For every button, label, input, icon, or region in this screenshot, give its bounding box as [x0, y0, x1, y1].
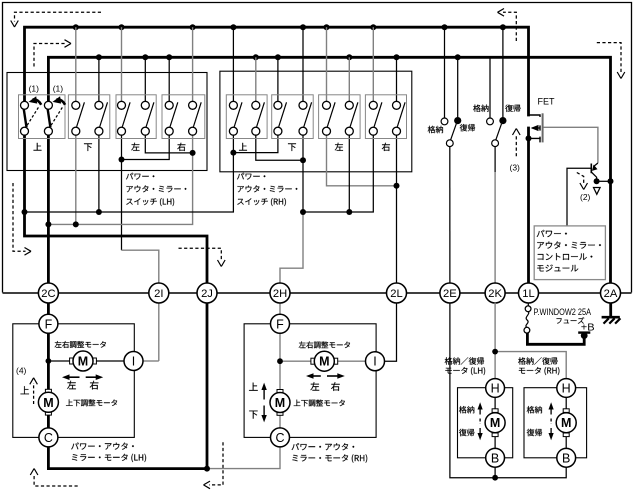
wire: below 2I gray to motor I	[158, 303, 160, 361]
dashed flow arrow bottom-left (up)	[34, 474, 78, 486]
lever motion curved arrow (1) left	[33, 99, 42, 104]
node F LH	[39, 314, 58, 333]
svg-text:M: M	[561, 416, 571, 430]
arrows and labels inside LH retract box	[459, 406, 474, 413]
wire: RH col7 lower corner to row212	[303, 135, 373, 212]
svg-text:1L: 1L	[522, 288, 534, 300]
up arrow solid	[263, 388, 265, 400]
caption: retract/return motor (LH)	[445, 357, 484, 365]
wire: RH col5 tie to col8 (gray)	[327, 135, 397, 186]
svg-text:C: C	[44, 431, 53, 445]
motor M left-right RH	[311, 358, 315, 364]
transistor	[591, 163, 598, 181]
switch cell boxes LH (up/down/left/right)	[19, 95, 205, 139]
wire: LH col5 lower to 2I jog	[121, 135, 123, 250]
cell labels LH	[34, 143, 42, 151]
svg-text:2I: 2I	[154, 288, 163, 300]
svg-text:I: I	[373, 355, 376, 369]
open switch levers RH	[234, 102, 405, 127]
node I RH	[366, 352, 385, 371]
svg-text:2K: 2K	[488, 288, 502, 300]
wire: feed to RH col6 (gray from bus2)	[348, 57, 350, 101]
node C RH	[271, 428, 290, 447]
wire: RH col3 tie to col1	[233, 135, 278, 152]
node H LH	[486, 379, 505, 398]
wire: retract switch A common to 2E	[449, 147, 451, 284]
left arrow	[310, 375, 321, 377]
wire: below 2K gray to retract motors	[494, 303, 496, 352]
closed switch levers LH up-cell (operated)	[24, 109, 27, 127]
dashed flow arrow bottom-mid (left)	[209, 442, 223, 485]
svg-text:2J: 2J	[201, 288, 213, 300]
svg-text:F: F	[276, 317, 284, 331]
retract switch A contacts	[441, 118, 448, 125]
dashed flow arrow top-left (enter, down)	[15, 12, 102, 21]
wire: LH col8 lower (gray) with tie to col2/col3	[48, 135, 192, 224]
svg-text:B: B	[562, 451, 570, 465]
svg-text:(1): (1)	[29, 83, 40, 93]
node F RH	[271, 314, 290, 333]
label: left-right adjust motor	[299, 341, 350, 348]
wire: feed to RH col5 (gray from bus1)	[326, 27, 328, 101]
junction dots on bus 1	[73, 24, 506, 30]
switch contact circles LH	[21, 101, 197, 135]
svg-text:M: M	[490, 416, 500, 430]
label: left-right adjust motor	[55, 341, 106, 348]
power outer mirror switch LH box	[7, 73, 207, 171]
svg-text:(1): (1)	[53, 83, 64, 93]
wire: RH col4 lower to row212	[302, 135, 304, 212]
junction dots on bus 2	[96, 54, 461, 60]
dashed flow arrow top (exit left)	[503, 12, 516, 41]
svg-text:F: F	[45, 317, 53, 331]
open triangle arrow below collector node	[594, 188, 601, 195]
wire: LH col6 lower tie to col8	[145, 135, 192, 153]
junction dot bottom bus	[204, 466, 210, 472]
svg-text:2H: 2H	[273, 288, 287, 300]
wire: feed to LH col5 (gray from bus1)	[121, 27, 123, 101]
fuse below 1L	[527, 303, 529, 306]
down arrow solid	[263, 406, 265, 418]
label: up-down adjust motor	[66, 399, 117, 406]
FET symbol	[529, 113, 543, 142]
right arrow	[86, 376, 100, 378]
wire: transistor base lead down to module	[567, 168, 592, 226]
motor M up-down LH	[45, 389, 51, 393]
wires H-M-B LH	[494, 397, 496, 410]
label: up-down adjust motor	[294, 400, 345, 407]
retract motor LH box	[458, 388, 513, 458]
svg-text:M: M	[319, 355, 329, 369]
node C LH	[39, 428, 58, 447]
ground below 2A	[609, 303, 612, 317]
wire: feed to RH col2 (gray from bus2)	[255, 57, 257, 101]
wire: bottom bus thick (C LH to 2J riser)	[48, 447, 207, 468]
labels switch B	[473, 105, 488, 112]
svg-text:2C: 2C	[41, 288, 55, 300]
node B LH	[486, 448, 505, 467]
retract switch B contacts	[487, 118, 494, 125]
node B RH	[557, 448, 576, 467]
motor M retract LH	[492, 409, 498, 413]
caption: power outer mirror switch (LH)	[126, 173, 154, 180]
motor M retract RH	[563, 409, 569, 413]
svg-text:H: H	[491, 382, 500, 396]
wire: F to updown motor to C (gray)	[279, 333, 281, 391]
wire: RH col1 lower with tie corner to row212	[25, 135, 234, 212]
wire: LH col4 lower	[98, 135, 100, 212]
wire: LH col3 lower (gray)	[75, 135, 77, 224]
dashed flow arrow near 2J (down)	[179, 248, 222, 261]
mirror motor LH box	[13, 324, 135, 438]
svg-text:C: C	[275, 431, 284, 445]
svg-text:I: I	[132, 355, 135, 369]
connector nodes row	[38, 283, 620, 303]
dashed flow arrow upper-left (right)	[34, 44, 66, 67]
svg-text:+B: +B	[581, 322, 595, 333]
wire: feed retract-sw B fixed contact (kakunou)	[489, 57, 491, 118]
caption: power outer mirror switch (RH)	[237, 173, 265, 180]
dashed flow arrow (3) up	[515, 134, 517, 156]
labels switch A	[428, 126, 443, 133]
wire: feed retract-sw B fixed contact (fukki)	[502, 27, 504, 117]
wire: feed to RH col7 (gray from bus1)	[372, 27, 374, 101]
wire: feed to LH col7 (from bus2)	[168, 57, 170, 101]
wire: RH col2 tie to col4	[256, 135, 303, 160]
switch contact circles RH	[229, 101, 400, 135]
wire: junction to leftright motor and I (gray)	[280, 360, 366, 362]
dashed arrow (4) up	[33, 383, 35, 404]
caption: power outer mirror motor (LH)	[71, 443, 134, 450]
dashed flow arrow (2) down	[577, 173, 584, 184]
retract motor RH box	[524, 388, 587, 458]
wire: motor I LH to 2I riser (gray)	[143, 360, 159, 362]
wire: feed to LH col3 (gray from bus1)	[75, 27, 77, 101]
wire: feed to RH col3 (from bus2)	[277, 57, 279, 101]
wire: feed to LH col8 (gray from bus1)	[192, 27, 194, 101]
wire: thick from fuse to +B	[527, 333, 584, 345]
wire: feed retract-sw A fixed contact (kakunou)	[444, 27, 446, 118]
wire: feed to LH col4 (from bus2)	[98, 57, 100, 101]
wire: below 2H gray to motor F RH	[279, 303, 281, 315]
svg-text:M: M	[78, 355, 88, 369]
wire: main thick from FET source down to 1L	[527, 127, 530, 284]
caption: power outer mirror motor (RH)	[292, 443, 355, 450]
wire: LH col1 lower thick to 2J corner	[25, 135, 208, 283]
wire: 2I branch jog (gray)	[122, 250, 159, 283]
svg-text:(4): (4)	[16, 365, 27, 375]
left arrow	[66, 376, 80, 378]
right arrow	[327, 375, 341, 377]
wires H-M-B RH	[565, 397, 567, 410]
svg-text:P.WINDOW2 25A: P.WINDOW2 25A	[534, 307, 592, 317]
wire: feed retract-sw A fixed contact (fukki)	[457, 57, 459, 117]
svg-text:M: M	[275, 396, 285, 410]
wire: main feed bus 1 (top thick)	[25, 27, 529, 116]
svg-text:B: B	[491, 451, 499, 465]
wire: feed to RH col4 (from bus1)	[302, 27, 304, 101]
wire: FET gate line (gray) to transistor	[543, 127, 598, 163]
mirror motor RH box	[244, 324, 376, 438]
svg-text:FET: FET	[538, 96, 555, 107]
wire: feed to RH col8 (from bus2)	[396, 57, 398, 101]
wire loop: left edge, top edge, right edge	[3, 3, 632, 293]
wire: below 2L to motor I RH	[384, 303, 396, 362]
wire: LH col7 lower tie to col5	[122, 135, 170, 159]
wire: RH col6 lower to row212 (gray)	[348, 135, 350, 212]
wire: LH col2 lower thick to 2C	[47, 135, 50, 283]
caption: retract/return motor (RH)	[518, 357, 557, 365]
dashed flow arrow left-mid (right)	[13, 183, 26, 251]
wire: B LH to bottom tie	[494, 467, 496, 477]
retract switch B lever	[496, 124, 502, 140]
wire: below 2E down to bottom tie	[450, 303, 566, 478]
wire: feed to RH col1 (from bus1)	[232, 27, 234, 101]
junction dots RH switch lower wires	[230, 150, 399, 215]
wire: retract switch B common to 2K	[494, 147, 496, 172]
svg-text:2A: 2A	[604, 288, 618, 300]
svg-text:2E: 2E	[443, 288, 457, 300]
power outer mirror switch RH box	[220, 71, 412, 172]
arrows and labels inside RH retract box	[527, 406, 542, 413]
wire: bottom bus gray continuation to C RH	[207, 447, 280, 469]
wire: branch to 2H (gray)	[280, 212, 303, 283]
wire: below 2C thick to mirror motor F	[47, 303, 50, 315]
retract switch A lever	[451, 124, 457, 140]
wire: collector tie to main right vertical	[597, 180, 611, 182]
wire: main feed bus 2 (second thick)	[48, 57, 610, 283]
svg-text:2L: 2L	[390, 288, 402, 300]
svg-text:M: M	[43, 396, 53, 410]
wire: feed to LH col6 (from bus2)	[144, 57, 146, 101]
switch cell boxes RH	[226, 95, 406, 139]
svg-text:(2): (2)	[580, 192, 591, 202]
wire: below 2J thick to bottom bus	[206, 303, 209, 469]
previous lever position (dashed)	[27, 107, 39, 125]
cell labels RH	[239, 143, 247, 151]
lever motion curved arrow (1) right	[57, 99, 66, 104]
wire: RH col8 lower to 2L	[396, 135, 398, 283]
motor M up-down RH	[277, 390, 283, 394]
node I LH	[124, 352, 143, 371]
junction dots LH switch lower wires	[22, 150, 196, 228]
svg-text:H: H	[562, 382, 571, 396]
open switch levers LH	[77, 102, 202, 127]
+B terminal	[581, 332, 588, 339]
svg-text:(3): (3)	[510, 162, 521, 172]
motor M left-right LH	[70, 358, 74, 364]
power outer mirror control module box	[534, 226, 605, 280]
node row line (harness line through connectors)	[3, 292, 632, 294]
wire: junction to leftright motor and I	[48, 360, 124, 362]
node H RH	[557, 379, 576, 398]
wire: thick F to updown motor to C	[47, 333, 50, 391]
dashed flow arrow top-right (down)	[597, 43, 621, 73]
